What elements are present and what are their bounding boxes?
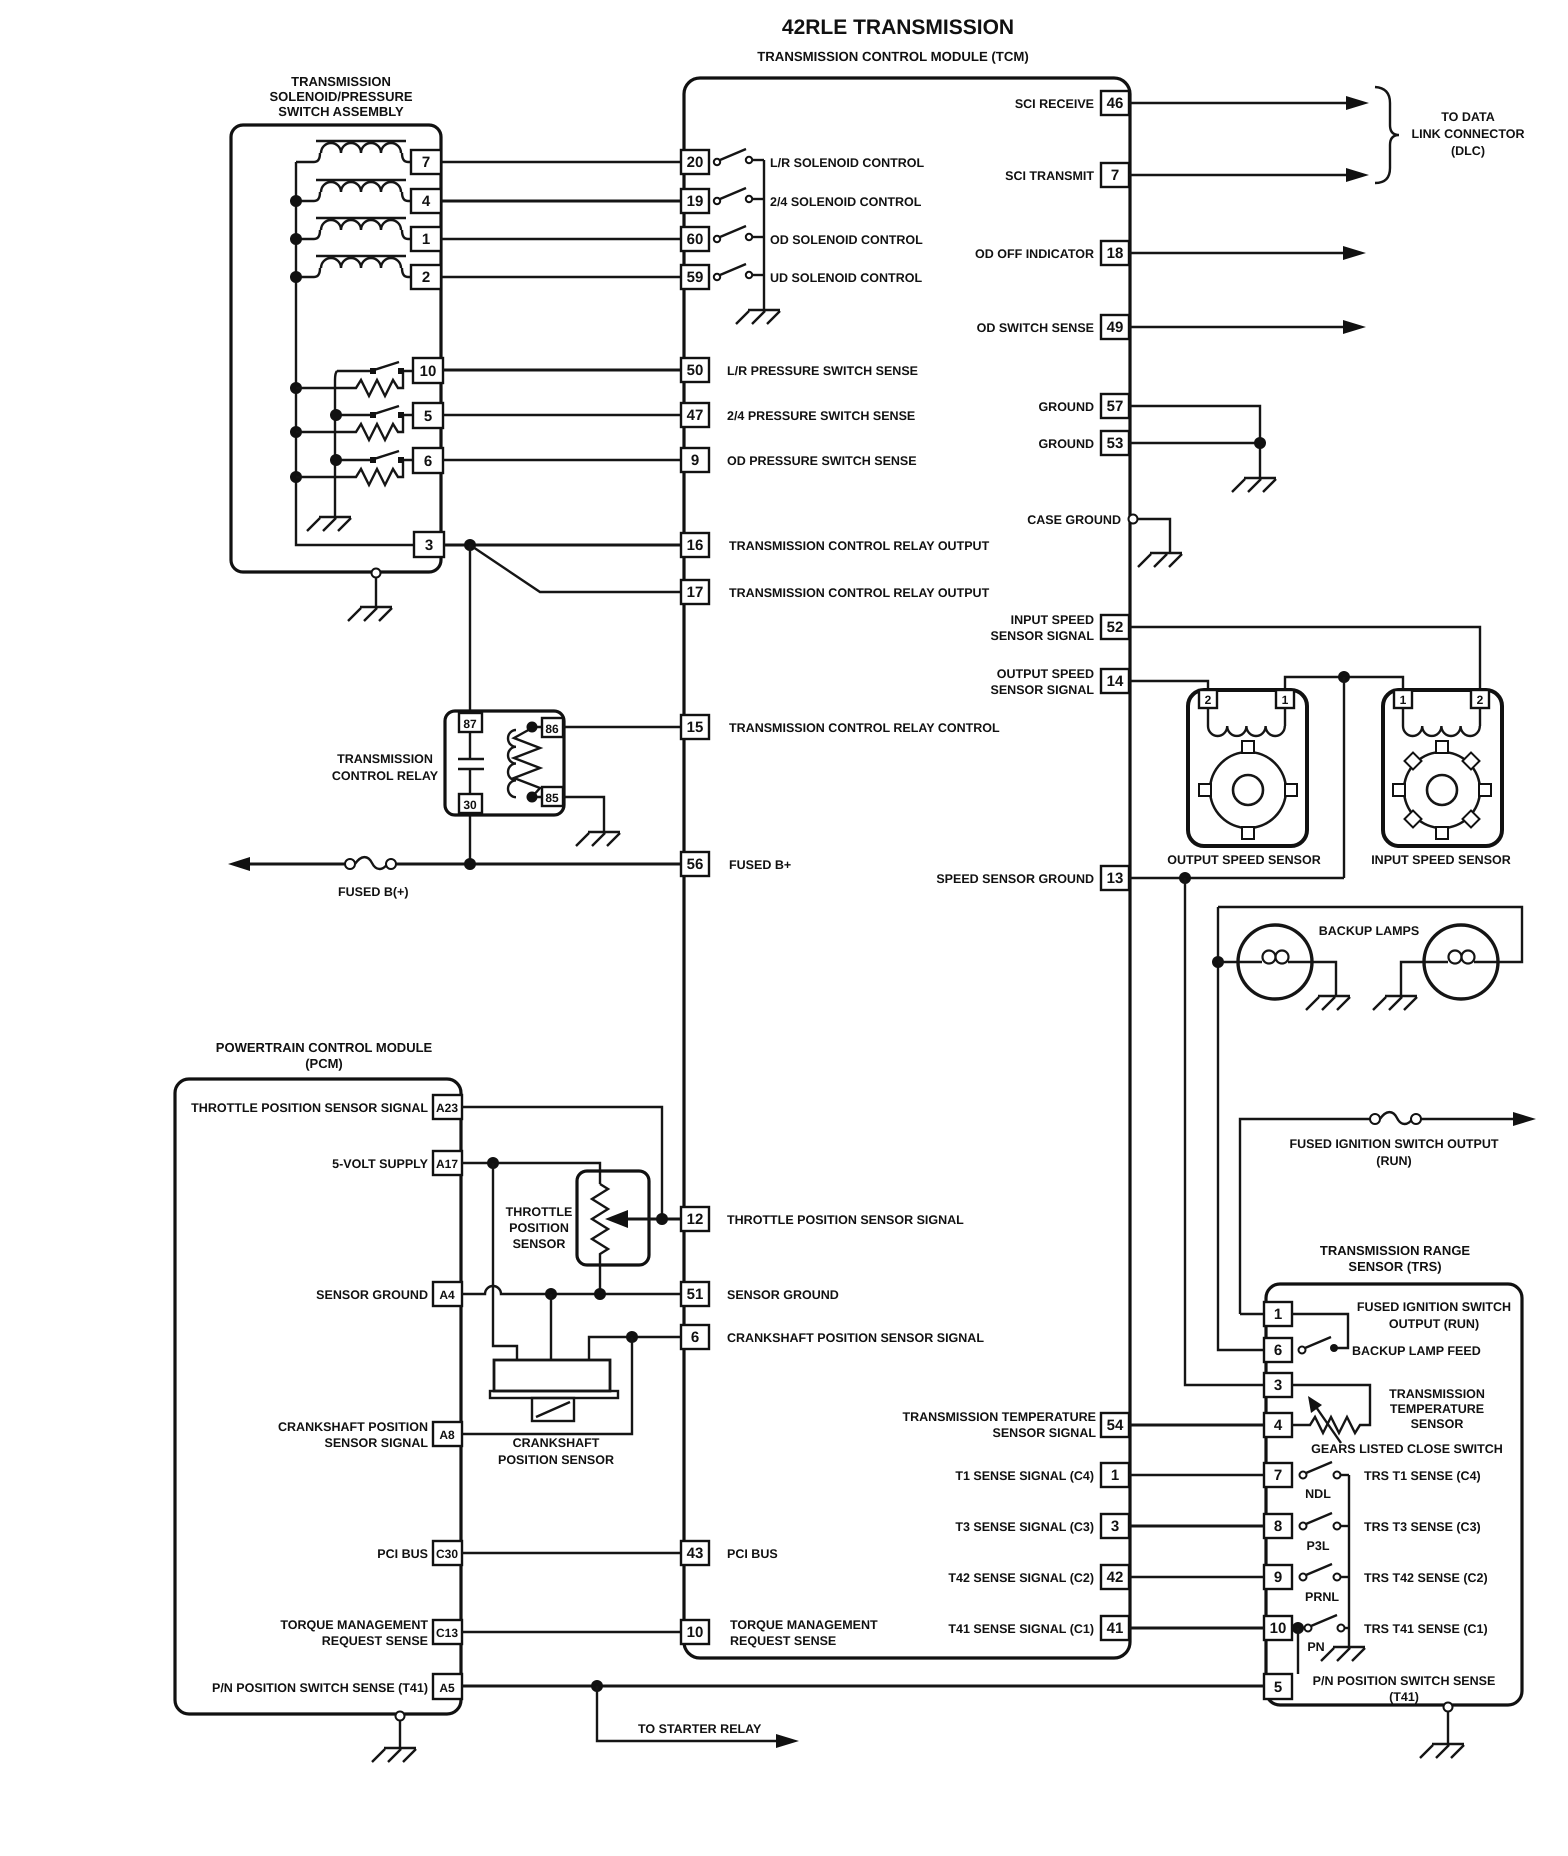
ground (assembly case): [348, 607, 392, 621]
svg-text:SOLENOID/PRESSURE: SOLENOID/PRESSURE: [269, 89, 412, 104]
svg-text:SENSOR: SENSOR: [513, 1237, 566, 1251]
svg-text:(T41): (T41): [1389, 1690, 1419, 1704]
arrowhead TPS wiper: [605, 1210, 628, 1228]
svg-text:L/R SOLENOID CONTROL: L/R SOLENOID CONTROL: [770, 156, 925, 170]
assembly pin 1 box: [411, 227, 441, 251]
svg-text:FUSED B+: FUSED B+: [729, 858, 791, 872]
assembly pin 7 box: [411, 150, 441, 174]
svg-text:2/4 SOLENOID CONTROL: 2/4 SOLENOID CONTROL: [770, 195, 922, 209]
ground (right lamp): [1373, 996, 1417, 1010]
arrowhead fused B+: [228, 857, 250, 871]
svg-text:1: 1: [1400, 693, 1407, 707]
wire A17 5V supply: [462, 1163, 600, 1184]
assembly left bus wire: [296, 162, 414, 545]
svg-text:TRANSMISSION: TRANSMISSION: [291, 74, 391, 89]
ground (solenoid drivers): [736, 310, 780, 324]
svg-text:CRANKSHAFT: CRANKSHAFT: [513, 1436, 600, 1450]
TCM pin 10 box: [681, 1620, 709, 1644]
label TRANSMISSION TEMPERATURE SENSOR SIGNAL: [902, 1410, 1096, 1440]
svg-text:BACKUP LAMPS: BACKUP LAMPS: [1319, 924, 1419, 938]
svg-text:P/N POSITION SWITCH SENSE (T41: P/N POSITION SWITCH SENSE (T41): [212, 1681, 428, 1695]
svg-text:9: 9: [691, 452, 699, 469]
input sensor coil: [1403, 708, 1480, 736]
svg-text:(PCM): (PCM): [305, 1056, 343, 1071]
wire case ground: [1138, 519, 1170, 552]
TCM pin 59 box: [681, 265, 709, 289]
wire ground 53: [1129, 443, 1260, 477]
contact dot backup switch: [1330, 1344, 1338, 1352]
svg-text:5: 5: [424, 408, 432, 425]
svg-text:POSITION: POSITION: [509, 1221, 569, 1235]
wire relay feed vertical: [469, 545, 471, 864]
svg-text:PCI BUS: PCI BUS: [727, 1547, 778, 1561]
TRS pin 10 box: [1264, 1616, 1292, 1640]
svg-text:6: 6: [691, 1329, 699, 1346]
svg-text:2/4 PRESSURE SWITCH SENSE: 2/4 PRESSURE SWITCH SENSE: [727, 409, 915, 423]
arrowhead SCI receive: [1346, 96, 1369, 110]
svg-text:A8: A8: [439, 1428, 455, 1442]
input speed sensor box: [1383, 690, 1502, 846]
TPS resistor: [592, 1184, 608, 1294]
ground (pressure switch bus): [307, 517, 351, 531]
node junction at pin3 output: [464, 539, 476, 551]
svg-text:13: 13: [1107, 870, 1124, 887]
svg-text:TRANSMISSION: TRANSMISSION: [1389, 1387, 1485, 1401]
wire pin6 to TCM pin9: [443, 459, 681, 461]
label OUTPUT SPEED SENSOR SIGNAL: [991, 667, 1095, 697]
svg-text:1: 1: [1274, 1306, 1282, 1323]
wire PCM case ground: [399, 1721, 401, 1747]
junction dots on left bus: [290, 195, 302, 483]
solenoid coil OD (pin 1): [296, 218, 411, 239]
TCM pin 41 box: [1101, 1616, 1129, 1640]
svg-text:BACKUP LAMP FEED: BACKUP LAMP FEED: [1352, 1344, 1481, 1358]
crankshaft position sensor body: [490, 1360, 618, 1421]
wire TRS pin1 feed: [1240, 1313, 1264, 1315]
svg-text:PRNL: PRNL: [1305, 1590, 1339, 1604]
svg-text:10: 10: [1270, 1620, 1287, 1637]
svg-text:OUTPUT SPEED: OUTPUT SPEED: [997, 667, 1094, 681]
PCM case circle: [396, 1712, 405, 1721]
pressure switch L/R (pin 10): [296, 362, 413, 396]
svg-text:CONTROL RELAY: CONTROL RELAY: [332, 769, 439, 783]
svg-text:42: 42: [1107, 1569, 1124, 1586]
svg-text:TORQUE MANAGEMENT: TORQUE MANAGEMENT: [280, 1618, 428, 1632]
svg-text:FUSED IGNITION SWITCH: FUSED IGNITION SWITCH: [1357, 1300, 1511, 1314]
solenoid driver ground bus: [763, 160, 765, 309]
wire pin 13 speed sensor ground: [1129, 877, 1344, 879]
svg-text:51: 51: [687, 1286, 704, 1303]
wire 5V down to crankshaft sensor: [493, 1163, 517, 1361]
label CRANKSHAFT POSITION SENSOR: [498, 1436, 614, 1467]
svg-text:TORQUE MANAGEMENT: TORQUE MANAGEMENT: [730, 1618, 878, 1632]
svg-text:POWERTRAIN CONTROL MODULE: POWERTRAIN CONTROL MODULE: [216, 1040, 433, 1055]
TCM pin 13 box: [1101, 866, 1129, 890]
TRS pin 3 box: [1264, 1373, 1292, 1397]
svg-text:OD PRESSURE SWITCH SENSE: OD PRESSURE SWITCH SENSE: [727, 454, 917, 468]
solenoid coil 2/4 (pin 4): [296, 180, 411, 201]
wire pin1 to TCM pin60: [441, 238, 681, 240]
wire node to left lamp: [1218, 961, 1238, 963]
assembly case connection circle: [372, 569, 381, 578]
assembly title: [269, 74, 412, 119]
switch TRS T3: [1300, 1513, 1350, 1530]
TCM module box: [684, 78, 1130, 1658]
fused B+ feed wire: [246, 863, 681, 866]
solenoid/pressure switch assembly box: [231, 125, 441, 572]
junction dot pin6: [626, 1331, 638, 1343]
svg-text:TO STARTER RELAY: TO STARTER RELAY: [638, 1722, 762, 1736]
svg-text:3: 3: [1274, 1377, 1282, 1394]
svg-text:3: 3: [1111, 1518, 1119, 1535]
wire to assembly ground: [375, 578, 377, 606]
svg-text:4: 4: [422, 193, 431, 210]
svg-text:7: 7: [1274, 1467, 1282, 1484]
svg-text:60: 60: [687, 231, 704, 248]
svg-text:GEARS LISTED CLOSE SWITCH: GEARS LISTED CLOSE SWITCH: [1311, 1442, 1503, 1456]
svg-text:SENSOR GROUND: SENSOR GROUND: [316, 1288, 428, 1302]
svg-text:T1 SENSE SIGNAL (C4): T1 SENSE SIGNAL (C4): [955, 1469, 1094, 1483]
wire SCI transmit arrow: [1129, 174, 1347, 176]
wire pin 1 to TRS pin7: [1129, 1474, 1264, 1476]
svg-text:8: 8: [1274, 1518, 1282, 1535]
svg-text:TRANSMISSION CONTROL RELAY CON: TRANSMISSION CONTROL RELAY CONTROL: [729, 721, 1000, 735]
svg-text:SENSOR SIGNAL: SENSOR SIGNAL: [325, 1436, 429, 1450]
junction dot speed sensor signal: [1338, 671, 1350, 683]
backup lamp left: [1238, 925, 1312, 999]
svg-text:T41 SENSE SIGNAL (C1): T41 SENSE SIGNAL (C1): [948, 1622, 1094, 1636]
input sensor pin 2 box: [1471, 690, 1489, 708]
TCM pin 9 box: [681, 448, 709, 472]
svg-text:REQUEST SENSE: REQUEST SENSE: [322, 1634, 428, 1648]
TRS pin 5 box: [1264, 1674, 1292, 1699]
wire A23 to pin12 net: [462, 1107, 662, 1219]
ground (case): [1138, 553, 1182, 567]
wire A5 to TRS pin5: [462, 1685, 1264, 1688]
svg-text:THROTTLE POSITION SENSOR SIGNA: THROTTLE POSITION SENSOR SIGNAL: [191, 1101, 428, 1115]
svg-text:THROTTLE: THROTTLE: [506, 1205, 573, 1219]
switch OD solenoid control: [714, 226, 764, 242]
svg-text:SCI RECEIVE: SCI RECEIVE: [1015, 97, 1094, 111]
arrowhead starter relay: [776, 1734, 799, 1748]
relay pin 87 box: [459, 713, 482, 732]
svg-text:86: 86: [545, 722, 559, 736]
svg-text:SENSOR GROUND: SENSOR GROUND: [727, 1288, 839, 1302]
svg-text:TRS T3 SENSE (C3): TRS T3 SENSE (C3): [1364, 1520, 1481, 1534]
svg-text:CASE GROUND: CASE GROUND: [1027, 513, 1121, 527]
transmission control relay box: [445, 711, 564, 815]
svg-text:30: 30: [463, 798, 477, 812]
junction dots on switch bus: [330, 409, 342, 466]
wire TRS pin1 to backup switch: [1292, 1314, 1348, 1348]
fuse symbol B+: [345, 857, 396, 869]
svg-text:9: 9: [1274, 1569, 1282, 1586]
svg-text:OD SOLENOID CONTROL: OD SOLENOID CONTROL: [770, 233, 923, 247]
svg-text:THROTTLE POSITION SENSOR SIGNA: THROTTLE POSITION SENSOR SIGNAL: [727, 1213, 964, 1227]
svg-text:16: 16: [687, 537, 704, 554]
input sensor tone wheel: [1393, 741, 1491, 839]
svg-text:1: 1: [1111, 1467, 1119, 1484]
TCM pin 57 box: [1101, 394, 1129, 418]
svg-text:2: 2: [1477, 693, 1484, 707]
svg-text:SENSOR SIGNAL: SENSOR SIGNAL: [991, 683, 1095, 697]
svg-text:10: 10: [687, 1624, 704, 1641]
svg-text:2: 2: [1205, 693, 1212, 707]
transmission range sensor box: [1266, 1284, 1522, 1705]
TCM pin 18 box: [1101, 241, 1129, 265]
wire diagonal to TCM pin17: [470, 545, 681, 592]
svg-text:52: 52: [1107, 619, 1124, 636]
wire pin 42 to TRS pin9: [1129, 1576, 1264, 1578]
svg-text:P3L: P3L: [1307, 1539, 1330, 1553]
relay coil: [508, 722, 542, 803]
case ground terminal circle: [1129, 515, 1138, 524]
junction dot pin13: [1179, 872, 1191, 884]
label INPUT SPEED SENSOR SIGNAL: [991, 613, 1095, 643]
output sensor pin 1 box: [1276, 690, 1294, 708]
assembly pin 10 box: [413, 358, 443, 383]
svg-text:41: 41: [1107, 1620, 1124, 1637]
assembly pin 6 box: [413, 448, 443, 473]
PCM pin A23 box: [433, 1095, 462, 1119]
svg-text:FUSED IGNITION SWITCH OUTPUT: FUSED IGNITION SWITCH OUTPUT: [1289, 1137, 1498, 1151]
svg-text:TRANSMISSION: TRANSMISSION: [337, 752, 433, 766]
junction dot fused B+: [464, 858, 476, 870]
TCM pin 52 box: [1101, 615, 1129, 639]
svg-text:1: 1: [1282, 693, 1289, 707]
svg-text:A4: A4: [439, 1288, 455, 1302]
svg-text:POSITION SENSOR: POSITION SENSOR: [498, 1453, 614, 1467]
svg-text:TRS T42 SENSE (C2): TRS T42 SENSE (C2): [1364, 1571, 1488, 1585]
TRS pin 7 box: [1264, 1463, 1292, 1487]
TRS title: [1320, 1243, 1471, 1274]
svg-text:SENSOR: SENSOR: [1411, 1417, 1464, 1431]
wire relay 85 to ground: [563, 797, 604, 831]
switch TRS T41: [1305, 1615, 1350, 1632]
svg-text:57: 57: [1107, 398, 1124, 415]
TRS pin 8 box: [1264, 1514, 1292, 1538]
TCM pin 20 box: [681, 150, 709, 174]
PCM pin A17 box: [433, 1151, 462, 1175]
TCM pin 56 box: [681, 852, 709, 876]
ground (TRS switches): [1321, 1647, 1365, 1661]
arrowhead OD switch sense: [1343, 320, 1366, 334]
solenoid coil UD (pin 2): [296, 256, 411, 277]
switch UD solenoid control: [714, 264, 764, 280]
TCM pin 47 box: [681, 403, 709, 427]
svg-text:TRS T41 SENSE (C1): TRS T41 SENSE (C1): [1364, 1622, 1488, 1636]
wire pin 14 to output speed sensor: [1129, 681, 1208, 690]
switch backup lamp feed: [1299, 1337, 1332, 1354]
wire pin 54 to TRS pin4: [1129, 1424, 1264, 1427]
svg-text:REQUEST SENSE: REQUEST SENSE: [730, 1634, 836, 1648]
svg-text:(RUN): (RUN): [1376, 1154, 1411, 1168]
svg-text:GROUND: GROUND: [1038, 400, 1094, 414]
TCM pin 54 box: [1101, 1413, 1129, 1437]
svg-text:59: 59: [687, 269, 704, 286]
backup lamp feed wire: [1218, 907, 1264, 1350]
PCM pin C13 box: [433, 1620, 462, 1644]
svg-text:P/N POSITION SWITCH SENSE: P/N POSITION SWITCH SENSE: [1313, 1674, 1496, 1688]
wire pin10 to TCM pin50: [443, 369, 681, 372]
switch TRS T1: [1300, 1462, 1350, 1479]
svg-text:42RLE TRANSMISSION: 42RLE TRANSMISSION: [782, 16, 1014, 39]
svg-text:A5: A5: [439, 1681, 455, 1695]
svg-text:50: 50: [687, 362, 704, 379]
label TORQUE MANAGEMENT REQUEST SENSE: [280, 1618, 428, 1648]
svg-text:85: 85: [545, 791, 559, 805]
svg-text:17: 17: [687, 584, 704, 601]
svg-text:SPEED SENSOR GROUND: SPEED SENSOR GROUND: [936, 872, 1094, 886]
transmission temperature sensor: [1292, 1385, 1370, 1443]
wire OD switch sense arrow: [1129, 326, 1344, 328]
PCM pin A4 box: [433, 1282, 462, 1306]
label FUSED IGNITION SWITCH OUTPUT (RUN): [1289, 1137, 1498, 1168]
wire sensor ground to crank sensor: [550, 1294, 552, 1361]
assembly pin 4 box: [411, 189, 441, 213]
wire pin5 to TCM pin47: [443, 414, 681, 416]
svg-text:12: 12: [687, 1211, 704, 1228]
TCM pin 42 box: [1101, 1565, 1129, 1589]
backup lamp right: [1424, 925, 1498, 999]
svg-text:OD OFF INDICATOR: OD OFF INDICATOR: [975, 247, 1094, 261]
relay pin 85 box: [542, 787, 563, 806]
svg-text:T3 SENSE SIGNAL (C3): T3 SENSE SIGNAL (C3): [955, 1520, 1094, 1534]
arrowhead OD off indicator: [1343, 246, 1366, 260]
svg-text:54: 54: [1107, 1417, 1124, 1434]
svg-text:C13: C13: [436, 1626, 458, 1640]
input sensor pin 1 box: [1394, 690, 1412, 708]
TCM pin 1 box: [1101, 1463, 1129, 1487]
output speed sensor box: [1188, 690, 1307, 846]
pressure switch OD (pin 6): [296, 451, 413, 485]
wire C13 to TCM 10: [462, 1631, 681, 1633]
label FUSED IGNITION SWITCH OUTPUT (RUN) TRS: [1357, 1300, 1511, 1331]
switch 2/4 solenoid control: [714, 188, 764, 204]
junction dot TRS pin10: [1292, 1622, 1304, 1634]
svg-text:6: 6: [1274, 1342, 1282, 1359]
brace to DLC: [1375, 87, 1399, 183]
relay contact bars: [458, 759, 484, 769]
svg-text:15: 15: [687, 719, 704, 736]
svg-text:46: 46: [1107, 95, 1124, 112]
relay title: [332, 752, 439, 783]
wire output pin1 to input pin1: [1285, 677, 1403, 690]
wire pin7 to TCM pin20: [441, 161, 681, 163]
backup lamps top rail: [1218, 907, 1522, 962]
switch L/R solenoid control: [714, 149, 764, 165]
svg-text:OUTPUT SPEED SENSOR: OUTPUT SPEED SENSOR: [1167, 853, 1321, 867]
wire TRS case ground: [1447, 1712, 1449, 1743]
assembly pin 3 box: [414, 532, 444, 557]
ground (TCM 57/53): [1232, 478, 1276, 492]
svg-text:1: 1: [422, 231, 430, 248]
svg-text:3: 3: [425, 537, 433, 554]
wire crank sense to A8: [462, 1337, 632, 1434]
fused ignition switch output wire: [1240, 1119, 1514, 1314]
svg-text:5: 5: [1274, 1679, 1282, 1696]
svg-text:A17: A17: [436, 1157, 458, 1171]
svg-text:L/R PRESSURE SWITCH SENSE: L/R PRESSURE SWITCH SENSE: [727, 364, 918, 378]
svg-text:TRS T1 SENSE (C4): TRS T1 SENSE (C4): [1364, 1469, 1481, 1483]
fuse symbol ignition: [1370, 1112, 1421, 1124]
svg-text:INPUT SPEED SENSOR: INPUT SPEED SENSOR: [1371, 853, 1511, 867]
svg-text:56: 56: [687, 856, 704, 873]
label THROTTLE POSITION SENSOR: [506, 1205, 573, 1251]
wire OD off indicator arrow: [1129, 252, 1344, 254]
relay pin 86 box: [542, 718, 563, 737]
svg-text:43: 43: [687, 1545, 704, 1562]
TCM pin 3 box: [1101, 1514, 1129, 1538]
svg-text:UD SOLENOID CONTROL: UD SOLENOID CONTROL: [770, 271, 922, 285]
wire pin2 to TCM pin59: [441, 276, 681, 278]
TCM pin 19 box: [681, 189, 709, 213]
svg-text:A23: A23: [436, 1101, 458, 1115]
junction dot A17: [487, 1157, 499, 1169]
svg-text:CRANKSHAFT POSITION: CRANKSHAFT POSITION: [278, 1420, 428, 1434]
label TORQUE MANAGEMENT REQUEST SENSE (TCM): [730, 1618, 878, 1648]
wire C30 to TCM 43: [462, 1552, 681, 1554]
svg-text:PN: PN: [1307, 1640, 1324, 1654]
PCM pin A8 box: [433, 1422, 462, 1446]
svg-text:10: 10: [420, 363, 437, 380]
TRS pin 4 box: [1264, 1413, 1292, 1437]
ground (relay 85): [576, 832, 620, 846]
pressure switch common bus wire: [335, 371, 337, 516]
svg-text:GROUND: GROUND: [1038, 437, 1094, 451]
wire right lamp to ground: [1401, 962, 1425, 995]
PCM pin A5 box: [433, 1674, 462, 1699]
powertrain control module box: [175, 1079, 461, 1714]
svg-text:TRANSMISSION TEMPERATURE: TRANSMISSION TEMPERATURE: [902, 1410, 1096, 1424]
wire pin 12 to TPS: [627, 1218, 681, 1221]
wire pin3 to TCM pin16: [444, 544, 681, 547]
svg-text:47: 47: [687, 407, 704, 424]
wire pin 41 to TRS pin10: [1129, 1627, 1264, 1630]
ground (left lamp): [1306, 996, 1350, 1010]
TRS case circle: [1444, 1703, 1453, 1712]
TRS pin 9 box: [1264, 1565, 1292, 1589]
solenoid coil L/R (pin 7): [296, 141, 411, 162]
arrowhead fused ignition: [1513, 1112, 1536, 1126]
TCM pin 15 box: [681, 715, 709, 739]
svg-text:INPUT SPEED: INPUT SPEED: [1011, 613, 1094, 627]
svg-text:6: 6: [424, 453, 432, 470]
junction dot pin12 wire: [656, 1213, 668, 1225]
svg-text:NDL: NDL: [1305, 1487, 1331, 1501]
svg-text:CRANKSHAFT POSITION SENSOR SIG: CRANKSHAFT POSITION SENSOR SIGNAL: [727, 1331, 984, 1345]
PCM title: [216, 1040, 433, 1071]
svg-text:5-VOLT SUPPLY: 5-VOLT SUPPLY: [332, 1157, 429, 1171]
assembly pin 5 box: [413, 403, 443, 428]
svg-text:OD SWITCH SENSE: OD SWITCH SENSE: [977, 321, 1094, 335]
svg-text:SENSOR (TRS): SENSOR (TRS): [1348, 1259, 1441, 1274]
TCM pin 60 box: [681, 227, 709, 251]
wire speed sensor ground down to TRS pin3: [1185, 878, 1264, 1385]
svg-text:4: 4: [1274, 1417, 1283, 1434]
TCM pin 51 box: [681, 1282, 709, 1306]
svg-text:53: 53: [1107, 435, 1124, 452]
wire pin 3 to TRS pin8: [1129, 1525, 1264, 1528]
relay pin 30 box: [459, 794, 482, 813]
junction dot starter relay: [591, 1680, 603, 1692]
svg-text:87: 87: [463, 717, 477, 731]
svg-text:OUTPUT (RUN): OUTPUT (RUN): [1389, 1317, 1479, 1331]
svg-text:TRANSMISSION CONTROL RELAY OUT: TRANSMISSION CONTROL RELAY OUTPUT: [729, 539, 990, 553]
label TRANSMISSION TEMPERATURE SENSOR: [1389, 1387, 1485, 1431]
ground (TRS case): [1420, 1744, 1464, 1758]
TCM pin 16 box: [681, 533, 709, 557]
